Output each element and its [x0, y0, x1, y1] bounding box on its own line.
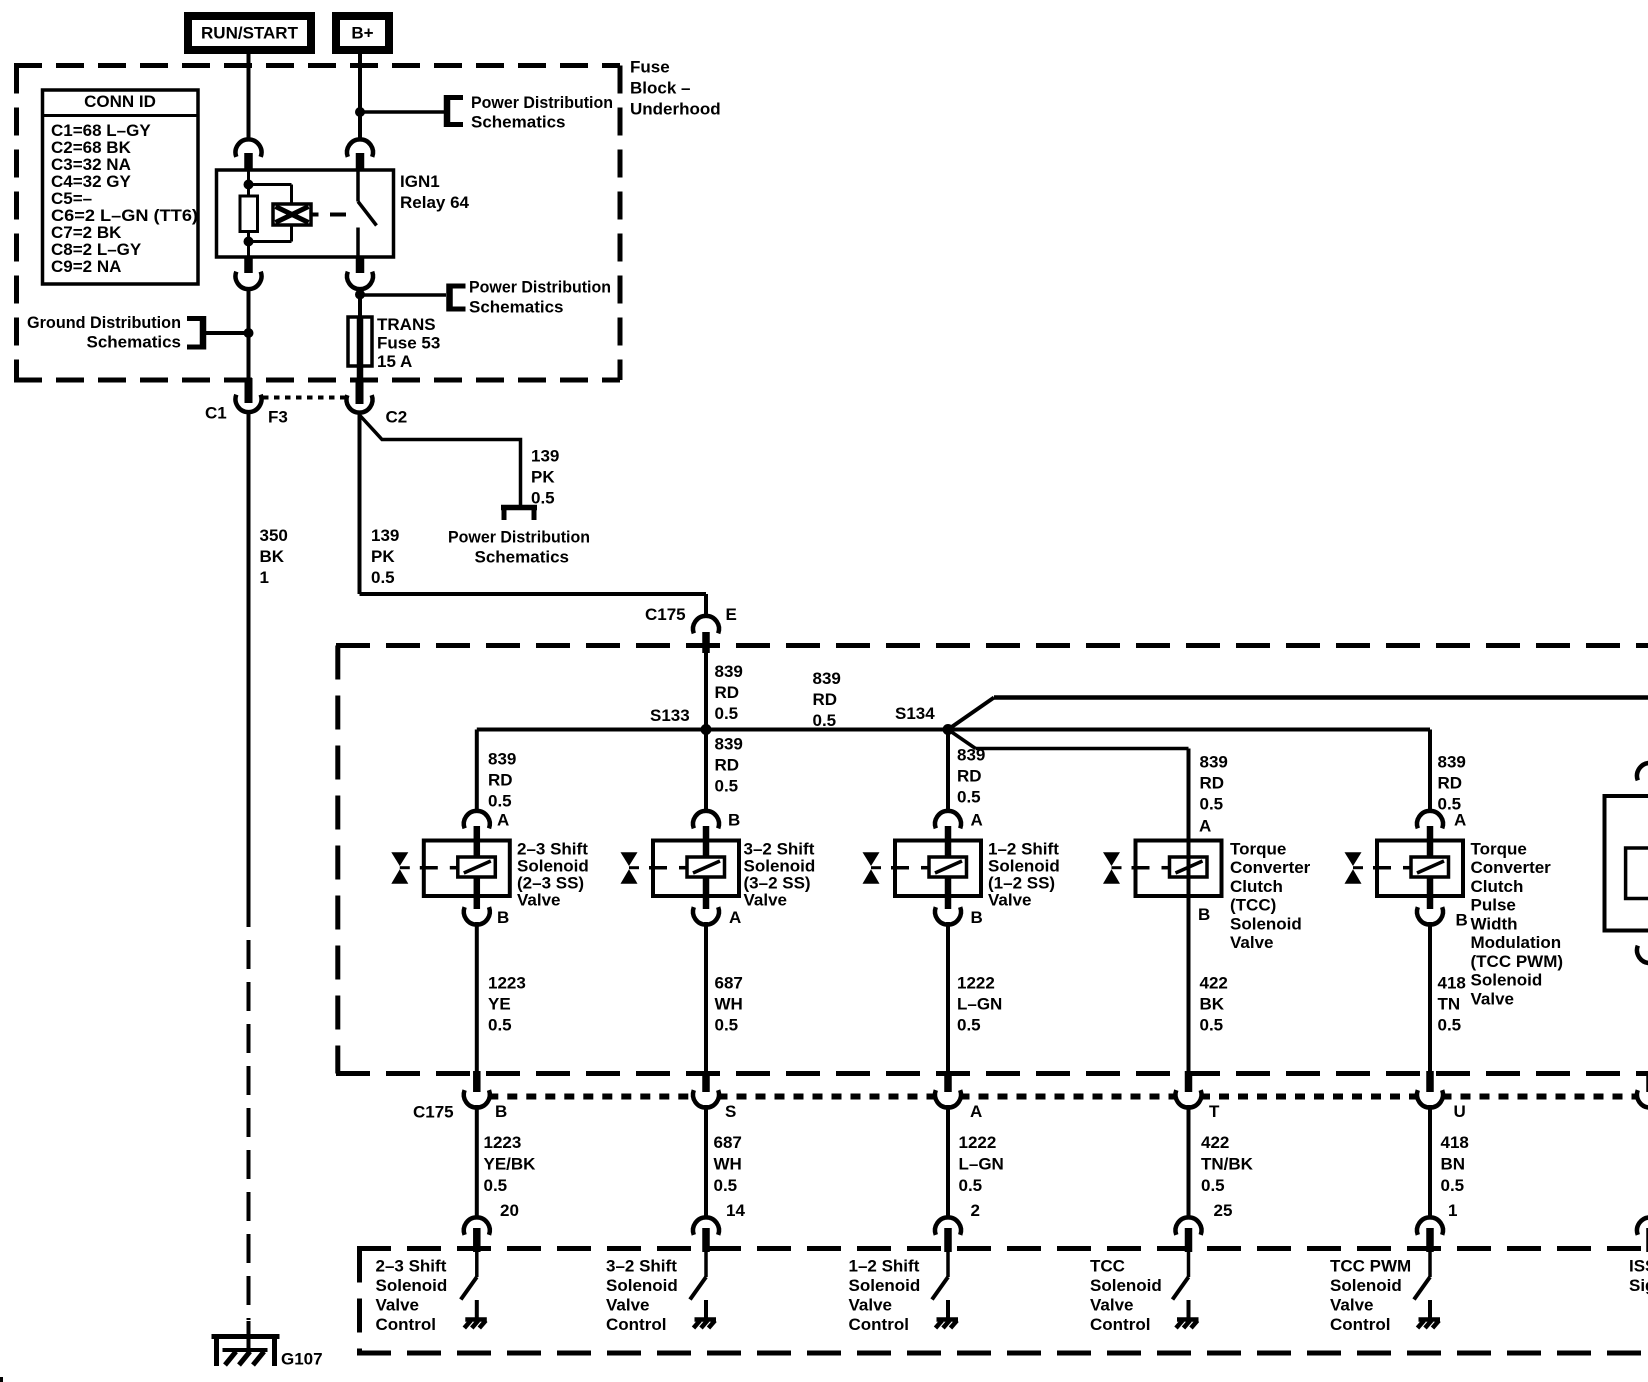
svg-text:Torque: Torque [1230, 839, 1286, 858]
wire: S134 lower branch to TCC solenoid [948, 730, 1189, 749]
svg-text:Power Distribution: Power Distribution [448, 527, 590, 546]
PCM driver: 1-2 shift solenoid valve control switch [932, 1252, 958, 1328]
svg-text:0.5: 0.5 [715, 776, 739, 795]
wire: branch to TCC PWM solenoid (839 RD) [1428, 730, 1432, 813]
svg-text:Solenoid: Solenoid [376, 1276, 448, 1295]
svg-text:YE: YE [488, 994, 511, 1013]
label: 2-3 Shift Solenoid (2-3 SS) Valve [517, 839, 589, 909]
svg-text:350: 350 [260, 526, 288, 545]
svg-text:Solenoid: Solenoid [849, 1276, 921, 1295]
svg-text:0.5: 0.5 [371, 568, 395, 587]
connector: relay pin bottom-left [236, 256, 262, 289]
svg-text:Pulse: Pulse [1471, 896, 1516, 915]
wire 1223 YE 0.5 [475, 922, 479, 1074]
wire: solenoid bus [477, 728, 1430, 732]
node: ground tap junction [244, 328, 254, 338]
power node RUN/START [188, 16, 311, 50]
svg-text:0.5: 0.5 [1200, 1015, 1224, 1034]
label: Torque Converter Clutch Pulse Width Modulation (TCC PWM) Solenoid Valve [1471, 839, 1564, 1008]
wire 1223 YE/BK 0.5 to PCM [475, 1105, 479, 1218]
label: 1-2 shift Solenoid Valve Control [849, 1256, 921, 1334]
label: 839 RD 0.5 (bus) [813, 669, 841, 730]
label: 422 TN/BK 0.5 [1201, 1133, 1254, 1195]
svg-text:BK: BK [260, 547, 285, 566]
svg-text:1223: 1223 [488, 973, 526, 992]
svg-text:0.5: 0.5 [531, 488, 555, 507]
svg-text:Solenoid: Solenoid [1230, 914, 1302, 933]
svg-text:C2: C2 [386, 407, 408, 426]
svg-text:422: 422 [1200, 973, 1228, 992]
page corner mark [0, 1377, 3, 1382]
svg-text:2–3 Shift: 2–3 Shift [376, 1256, 447, 1275]
svg-text:839: 839 [1438, 752, 1466, 771]
label: 1223 YE 0.5 [488, 973, 526, 1034]
label: 1222 L–GN 0.5 [959, 1133, 1004, 1195]
svg-text:687: 687 [715, 973, 743, 992]
relay actuator dashed link [311, 213, 346, 217]
svg-text:RD: RD [1438, 773, 1463, 792]
wire 1222 L–GN 0.5 to PCM [946, 1105, 950, 1218]
label: 3-2 Shift Solenoid (3-2 SS) Valve [744, 839, 816, 909]
connector C1 [205, 378, 262, 422]
svg-text:Power Distribution: Power Distribution [471, 93, 613, 112]
svg-text:0.5: 0.5 [1438, 1015, 1462, 1034]
label: 839 RD 0.5 (TCC PWM) [1438, 752, 1466, 813]
svg-text:Schematics: Schematics [475, 547, 570, 566]
svg-text:S133: S133 [650, 706, 690, 725]
wire: branch to 2-3 shift solenoid (839 RD) [475, 730, 479, 813]
solenoid: Torque Converter Clutch (TCC) Solenoid Valve [1103, 840, 1222, 896]
svg-text:Fuse 53: Fuse 53 [377, 333, 440, 352]
splice S134 [895, 704, 954, 735]
svg-text:WH: WH [714, 1154, 742, 1173]
label: IGN1 Relay 64 [400, 172, 470, 212]
label: 350 BK 1 [260, 526, 288, 587]
label: 139 PK 0.5 (main) [371, 526, 399, 587]
svg-text:Schematics: Schematics [471, 113, 566, 132]
connector C175 pin S [693, 1071, 736, 1121]
ground G107 [212, 1321, 323, 1368]
svg-text:839: 839 [488, 749, 516, 768]
svg-text:PK: PK [531, 467, 555, 486]
wire: S134 upper branch to right [948, 698, 1648, 730]
svg-text:TCC: TCC [1090, 1256, 1125, 1275]
svg-text:14: 14 [726, 1201, 745, 1220]
svg-text:839: 839 [1200, 752, 1228, 771]
label: 3-2 shift Solenoid Valve Control [606, 1256, 678, 1334]
label: 839 RD 0.5 (2-3) [488, 749, 516, 810]
svg-text:S: S [725, 1102, 736, 1121]
svg-text:TCC PWM: TCC PWM [1330, 1256, 1411, 1275]
svg-text:C175: C175 [413, 1103, 454, 1122]
off-page ref: Ground Distribution Schematics [27, 313, 249, 352]
svg-text:TN/BK: TN/BK [1201, 1154, 1254, 1173]
svg-text:CONN ID: CONN ID [84, 92, 156, 111]
connector: relay pin top-left [236, 139, 262, 171]
svg-text:15 A: 15 A [377, 352, 412, 371]
wire 350 BK 1 (hidden run, dashed) [247, 898, 251, 1320]
svg-text:2: 2 [971, 1201, 980, 1220]
label: 139 PK 0.5 (branch) [531, 446, 559, 507]
label: Fuse Block - Underhood [630, 57, 721, 118]
svg-text:Valve: Valve [1330, 1296, 1374, 1315]
svg-text:Width: Width [1471, 914, 1518, 933]
label: Torque Converter Clutch (TCC) Solenoid Valve [1230, 839, 1311, 952]
svg-text:Converter: Converter [1471, 858, 1552, 877]
svg-text:RD: RD [715, 683, 740, 702]
svg-text:PK: PK [371, 547, 395, 566]
svg-text:Control: Control [849, 1315, 909, 1334]
wire 350 BK 1 (solid) [247, 410, 251, 898]
PCM driver: TCC solenoid valve control switch [1173, 1252, 1199, 1328]
svg-text:839: 839 [813, 669, 841, 688]
connector C175 pin (clipped right) [1637, 1071, 1648, 1108]
label: 839 RD 0.5 (TCC) [1200, 752, 1228, 813]
svg-text:RUN/START: RUN/START [201, 23, 299, 42]
label: 839 RD 0.5 (1-2) [957, 745, 985, 806]
PCM driver: 3-2 shift solenoid valve control switch [690, 1252, 716, 1328]
svg-text:0.5: 0.5 [1441, 1176, 1465, 1195]
svg-text:ISS: ISS [1629, 1256, 1648, 1275]
svg-text:0.5: 0.5 [957, 1015, 981, 1034]
svg-text:RD: RD [715, 755, 740, 774]
svg-text:25: 25 [1214, 1201, 1233, 1220]
svg-text:A: A [1199, 816, 1211, 835]
svg-text:Power Distribution: Power Distribution [469, 277, 611, 296]
svg-text:TRANS: TRANS [377, 315, 436, 334]
svg-text:A: A [729, 908, 741, 927]
wire: branch to 3-2 shift solenoid (839 RD) [704, 730, 708, 813]
wire 418 BN 0.5 to PCM [1428, 1105, 1432, 1218]
svg-text:422: 422 [1201, 1133, 1229, 1152]
svg-text:U: U [1454, 1102, 1466, 1121]
svg-text:BK: BK [1200, 994, 1225, 1013]
solenoid: 2-3 Shift Solenoid (2-3 SS) Valve [391, 811, 510, 925]
svg-text:C9=2 NA: C9=2 NA [51, 257, 121, 276]
svg-text:B: B [497, 908, 509, 927]
svg-text:Solenoid: Solenoid [606, 1276, 678, 1295]
label: 418 TN 0.5 [1438, 973, 1466, 1034]
svg-text:0.5: 0.5 [1201, 1176, 1225, 1195]
label: 839 RD 0.5 (3-2) [715, 734, 743, 795]
svg-text:B: B [1456, 910, 1468, 929]
svg-text:Valve: Valve [988, 890, 1032, 909]
label: 418 BN 0.5 [1441, 1133, 1469, 1195]
label: TCC Solenoid Valve Control [1090, 1256, 1162, 1334]
svg-text:Converter: Converter [1230, 858, 1311, 877]
svg-text:L–GN: L–GN [957, 994, 1002, 1013]
transmission component dashed box [336, 646, 1648, 1074]
label: 687 WH 0.5 [715, 973, 743, 1034]
wire 418 TN 0.5 [1428, 922, 1432, 1074]
svg-text:B: B [971, 908, 983, 927]
wire: branch to TCC solenoid (839 RD) [1187, 749, 1191, 1074]
svg-text:TN: TN [1438, 994, 1461, 1013]
svg-text:B: B [728, 810, 740, 829]
svg-text:Valve: Valve [849, 1296, 893, 1315]
connector C2 [346, 378, 407, 426]
svg-text:Control: Control [376, 1315, 436, 1334]
svg-text:839: 839 [715, 734, 743, 753]
svg-text:Solenoid: Solenoid [1090, 1276, 1162, 1295]
svg-text:Control: Control [1090, 1315, 1150, 1334]
svg-text:1: 1 [1448, 1201, 1457, 1220]
svg-text:1–2 Shift: 1–2 Shift [849, 1256, 920, 1275]
svg-text:IGN1: IGN1 [400, 172, 440, 191]
svg-text:Ground Distribution: Ground Distribution [27, 313, 181, 332]
svg-text:839: 839 [715, 662, 743, 681]
label: 839 RD 0.5 (E feed) [715, 662, 743, 723]
svg-text:0.5: 0.5 [715, 704, 739, 723]
svg-text:Control: Control [606, 1315, 666, 1334]
svg-text:B+: B+ [351, 23, 373, 42]
PCM driver: TCC PWM solenoid valve control switch [1414, 1252, 1440, 1328]
svg-text:0.5: 0.5 [959, 1176, 983, 1195]
svg-text:RD: RD [1200, 773, 1225, 792]
off-page ref: Power Distribution Schematics (mid) [360, 277, 611, 316]
svg-text:Control: Control [1330, 1315, 1390, 1334]
svg-text:Clutch: Clutch [1230, 877, 1283, 896]
connector: PCM pin 20 arc [464, 1217, 490, 1252]
wire 687 WH 0.5 [704, 922, 708, 1074]
svg-text:687: 687 [714, 1133, 742, 1152]
fuse block underhood dashed box [14, 66, 620, 381]
svg-text:C1: C1 [205, 403, 227, 422]
svg-text:Valve: Valve [1090, 1296, 1134, 1315]
label: 2-3 shift Solenoid Valve Control [376, 1256, 448, 1334]
wire: E to S133 [704, 653, 708, 730]
solenoid: 3-2 Shift Solenoid (3-2 SS) Valve [621, 811, 740, 925]
CONN ID table [43, 90, 199, 284]
svg-text:Valve: Valve [606, 1296, 650, 1315]
svg-text:F3: F3 [268, 407, 288, 426]
svg-text:139: 139 [531, 446, 559, 465]
connector: PCM pin 1 arc [1417, 1217, 1443, 1252]
svg-text:C175: C175 [645, 605, 686, 624]
connector: relay pin bottom-right [347, 256, 373, 289]
connector C175 dotted interface line [488, 1094, 1638, 1100]
svg-text:Fuse: Fuse [630, 57, 670, 76]
svg-text:B: B [495, 1102, 507, 1121]
splice S133 [650, 706, 712, 735]
solenoid: TCC PWM Solenoid Valve [1345, 811, 1464, 925]
svg-text:0.5: 0.5 [488, 791, 512, 810]
svg-text:A: A [497, 810, 509, 829]
wire 687 WH 0.5 to PCM [704, 1105, 708, 1218]
off-page ref: Power Distribution Schematics (top) [360, 93, 613, 132]
wire: RUN/START to relay [247, 54, 251, 141]
connector: PCM pin 2 arc [935, 1217, 961, 1252]
label: TCC PWM Solenoid Valve Control [1330, 1256, 1411, 1334]
svg-text:1222: 1222 [959, 1133, 997, 1152]
svg-text:0.5: 0.5 [1200, 794, 1224, 813]
svg-text:Signal: Signal [1629, 1276, 1648, 1295]
wire: branch to 1-2 shift solenoid (839 RD) [946, 730, 950, 813]
svg-text:0.5: 0.5 [957, 787, 981, 806]
svg-text:Schematics: Schematics [87, 332, 182, 351]
connector C175 pin B [464, 1071, 507, 1121]
svg-text:A: A [1454, 810, 1466, 829]
svg-text:L–GN: L–GN [959, 1154, 1004, 1173]
connector: PCM pin 14 arc [693, 1217, 719, 1252]
svg-text:Torque: Torque [1471, 839, 1527, 858]
label: 422 BK 0.5 [1200, 973, 1228, 1034]
component: input speed sensor (partial, right edge) [1605, 763, 1648, 963]
wire 139 PK 0.5 main [360, 412, 707, 617]
svg-text:418: 418 [1441, 1133, 1469, 1152]
connector C175 pin E [645, 605, 737, 653]
svg-text:20: 20 [500, 1201, 519, 1220]
svg-text:Valve: Valve [376, 1296, 420, 1315]
connector C175 pin A [935, 1071, 982, 1121]
svg-text:T: T [1209, 1102, 1220, 1121]
svg-text:1223: 1223 [484, 1133, 522, 1152]
connector: relay pin top-right [347, 139, 373, 171]
connector line F3 (dotted) [263, 398, 346, 427]
svg-text:RD: RD [813, 690, 838, 709]
node: B+ tap junction [355, 107, 365, 117]
node: mid tap junction [355, 290, 365, 300]
label: 1-2 Shift Solenoid (1-2 SS) Valve [988, 839, 1060, 909]
svg-text:139: 139 [371, 526, 399, 545]
svg-text:(TCC PWM): (TCC PWM) [1471, 952, 1564, 971]
svg-text:Clutch: Clutch [1471, 877, 1524, 896]
svg-text:418: 418 [1438, 973, 1466, 992]
svg-text:Block –: Block – [630, 78, 690, 97]
svg-text:0.5: 0.5 [715, 1015, 739, 1034]
wire 139 PK 0.5 stub branch [360, 415, 521, 505]
wire: relay to fuse [358, 288, 362, 317]
solenoid: 1-2 Shift Solenoid (1-2 SS) Valve [863, 811, 982, 925]
svg-text:Valve: Valve [744, 890, 788, 909]
svg-text:Underhood: Underhood [630, 99, 721, 118]
relay switch [358, 170, 377, 257]
off-page ref: Power Distribution Schematics (down) [448, 508, 590, 567]
label: 687 WH 0.5 [714, 1133, 742, 1195]
svg-text:A: A [971, 810, 983, 829]
wire: relay to C1 [247, 288, 251, 380]
wire: B+ down to relay [358, 54, 362, 141]
connector C175 pin U [1417, 1071, 1466, 1121]
svg-text:BN: BN [1441, 1154, 1466, 1173]
svg-text:0.5: 0.5 [813, 711, 837, 730]
label: TRANS Fuse 53 15 A [377, 315, 440, 371]
svg-text:YE/BK: YE/BK [484, 1154, 537, 1173]
svg-text:RD: RD [488, 770, 513, 789]
svg-text:1: 1 [260, 568, 269, 587]
connector: PCM pin 25 arc [1176, 1217, 1202, 1252]
svg-text:3–2 Shift: 3–2 Shift [606, 1256, 677, 1275]
label: ISS Signal (clipped) [1629, 1256, 1648, 1295]
svg-text:Valve: Valve [1230, 933, 1274, 952]
svg-text:Modulation: Modulation [1471, 933, 1562, 952]
PCM driver: 2-3 shift solenoid valve control switch [461, 1252, 487, 1328]
svg-text:B: B [1198, 905, 1210, 924]
svg-text:0.5: 0.5 [714, 1176, 738, 1195]
relay coil resistor branch [240, 170, 258, 257]
wire 1222 L-GN 0.5 [946, 922, 950, 1074]
svg-text:0.5: 0.5 [488, 1015, 512, 1034]
fuse F53: TRANS Fuse 53 15 A [348, 317, 372, 380]
svg-text:Solenoid: Solenoid [1471, 971, 1543, 990]
svg-text:839: 839 [957, 745, 985, 764]
svg-text:Schematics: Schematics [469, 297, 564, 316]
svg-text:G107: G107 [281, 1349, 323, 1368]
connector C175 pin T [1176, 1071, 1221, 1121]
svg-text:A: A [970, 1102, 982, 1121]
relay coil [249, 185, 312, 242]
svg-text:Valve: Valve [517, 890, 561, 909]
connector: PCM pin (clipped right) [1637, 1217, 1648, 1252]
svg-text:Valve: Valve [1471, 989, 1515, 1008]
svg-text:Solenoid: Solenoid [1330, 1276, 1402, 1295]
svg-text:(TCC): (TCC) [1230, 896, 1276, 915]
wire 422 TN/BK 0.5 to PCM [1187, 1105, 1191, 1218]
svg-text:RD: RD [957, 766, 982, 785]
svg-text:WH: WH [715, 994, 743, 1013]
power node B+ [336, 16, 389, 50]
svg-text:0.5: 0.5 [484, 1176, 508, 1195]
svg-text:S134: S134 [895, 704, 935, 723]
svg-text:1222: 1222 [957, 973, 995, 992]
relay U: IGN1 Relay 64 box [217, 170, 394, 257]
label: 1223 YE/BK 0.5 [484, 1133, 537, 1195]
svg-text:Relay 64: Relay 64 [400, 193, 470, 212]
svg-text:E: E [726, 605, 737, 624]
PCM dashed box [357, 1249, 1648, 1354]
label: 1222 L-GN 0.5 [957, 973, 1002, 1034]
